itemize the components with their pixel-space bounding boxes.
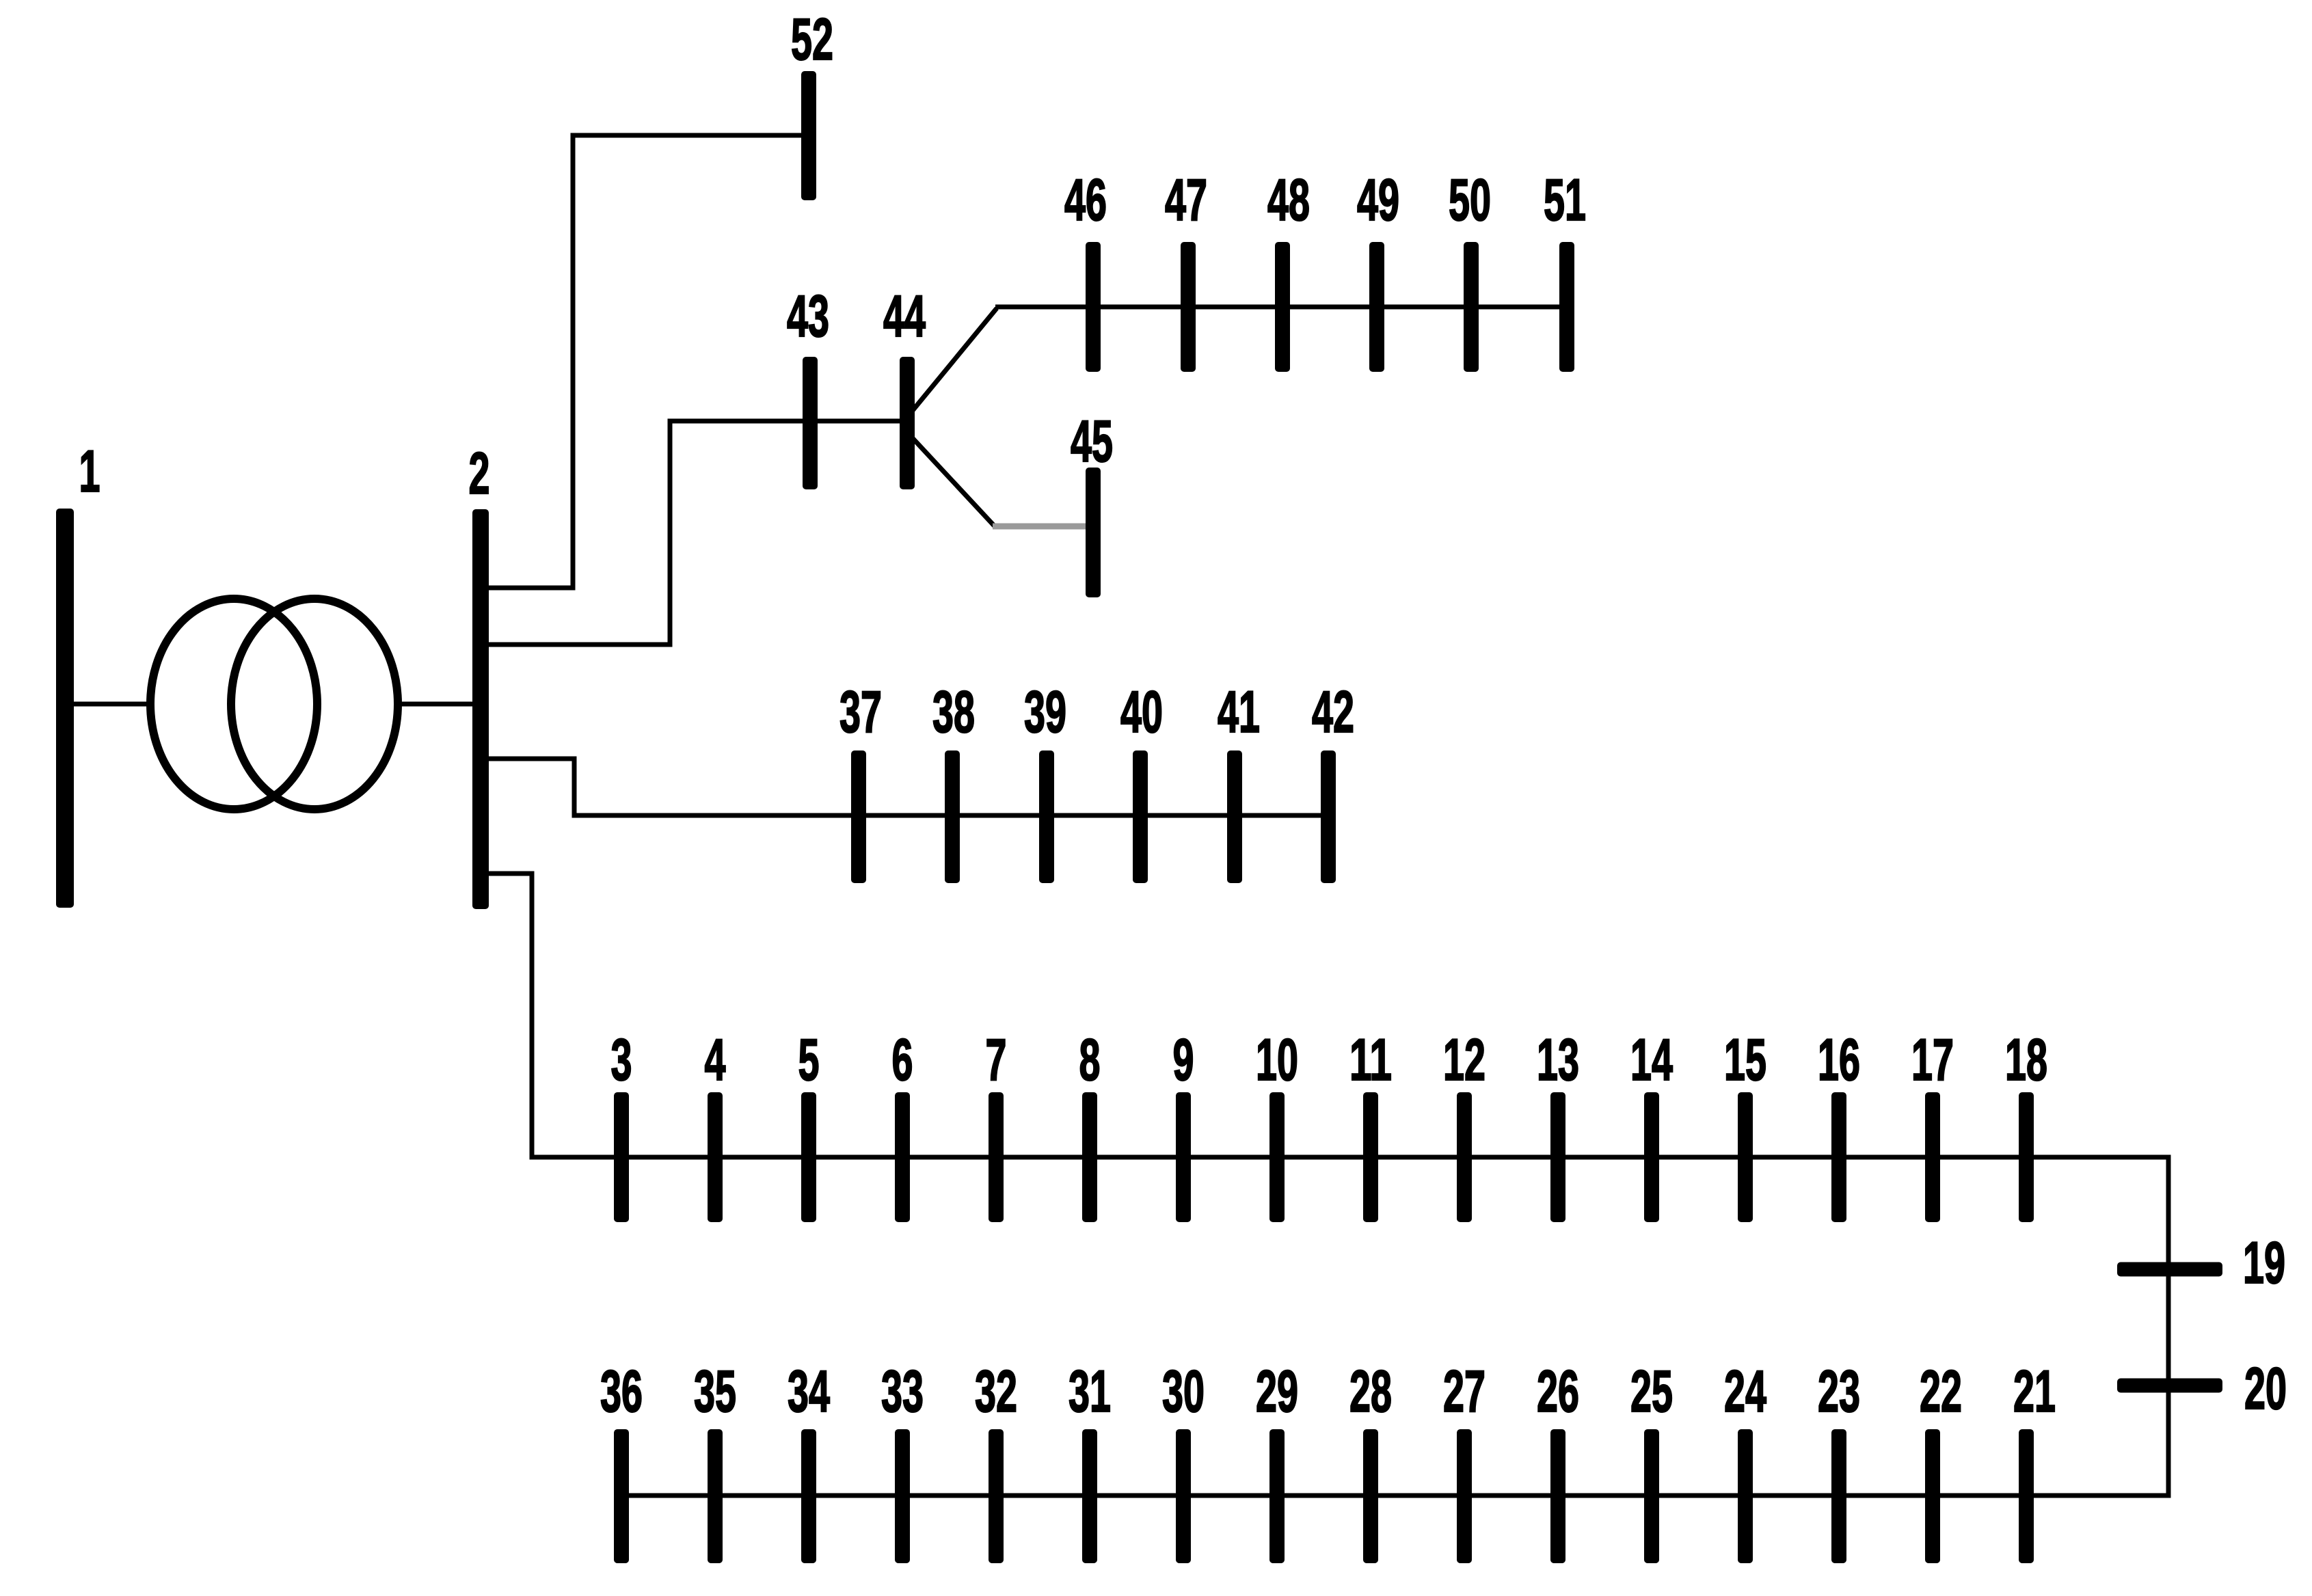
bus 10	[1269, 1092, 1285, 1222]
svg-text:33: 33	[881, 1359, 924, 1424]
wire bus2-bus43 feeder	[487, 421, 909, 645]
bus 21	[2019, 1429, 2034, 1563]
bus 7	[989, 1092, 1004, 1222]
svg-text:8: 8	[1079, 1027, 1101, 1093]
svg-text:37: 37	[839, 679, 882, 745]
bus 43	[803, 357, 818, 489]
bus 12	[1457, 1092, 1472, 1222]
wire bus2-bus52 feeder	[487, 135, 807, 588]
bus 42	[1321, 750, 1336, 883]
svg-text:23: 23	[1818, 1359, 1860, 1424]
svg-text:3: 3	[611, 1027, 632, 1093]
svg-text:1: 1	[79, 439, 100, 504]
bus 41	[1227, 750, 1242, 883]
bus 36	[614, 1429, 629, 1563]
svg-text:20: 20	[2244, 1356, 2287, 1422]
bus 37	[851, 750, 866, 883]
bus 34	[801, 1429, 816, 1563]
svg-text:24: 24	[1724, 1359, 1766, 1424]
svg-text:18: 18	[2005, 1027, 2047, 1093]
svg-text:32: 32	[975, 1359, 1017, 1424]
svg-text:12: 12	[1443, 1027, 1486, 1093]
svg-text:29: 29	[1256, 1359, 1298, 1424]
bus 22	[1925, 1429, 1940, 1563]
bus 35	[708, 1429, 723, 1563]
svg-text:47: 47	[1165, 167, 1207, 233]
svg-text:7: 7	[986, 1027, 1007, 1093]
svg-text:52: 52	[791, 7, 833, 72]
svg-text:22: 22	[1920, 1359, 1962, 1424]
bus 26	[1550, 1429, 1565, 1563]
svg-text:40: 40	[1120, 679, 1163, 745]
svg-text:46: 46	[1064, 167, 1107, 233]
svg-text:42: 42	[1312, 679, 1354, 745]
svg-text:26: 26	[1537, 1359, 1579, 1424]
svg-text:31: 31	[1068, 1359, 1111, 1424]
svg-text:48: 48	[1267, 167, 1310, 233]
wire bus44-bus45 diagonal	[912, 437, 995, 526]
svg-text:16: 16	[1818, 1027, 1860, 1093]
bus 39	[1039, 750, 1054, 883]
svg-text:10: 10	[1256, 1027, 1298, 1093]
bus 23	[1831, 1429, 1846, 1563]
svg-text:49: 49	[1357, 167, 1399, 233]
bus 25	[1644, 1429, 1659, 1563]
svg-text:50: 50	[1449, 167, 1491, 233]
bus 18	[2019, 1092, 2034, 1222]
bus 46	[1086, 242, 1101, 372]
bus 16	[1831, 1092, 1846, 1222]
svg-text:39: 39	[1024, 679, 1066, 745]
svg-text:19: 19	[2243, 1230, 2285, 1296]
bus 17	[1925, 1092, 1940, 1222]
wire bus44-bus46 branch diagonal	[911, 308, 997, 412]
svg-text:34: 34	[788, 1359, 830, 1424]
bus 6	[895, 1092, 910, 1222]
svg-text:6: 6	[892, 1027, 913, 1093]
svg-text:2: 2	[469, 441, 490, 506]
bus 15	[1738, 1092, 1753, 1222]
svg-text:17: 17	[1911, 1027, 1954, 1093]
svg-text:41: 41	[1218, 679, 1260, 745]
svg-text:30: 30	[1162, 1359, 1205, 1424]
svg-text:14: 14	[1630, 1027, 1673, 1093]
bus 20	[2117, 1379, 2222, 1393]
svg-text:35: 35	[694, 1359, 736, 1424]
svg-text:13: 13	[1537, 1027, 1579, 1093]
wire to bus 45 (gray)	[993, 524, 1088, 530]
bus 50	[1464, 242, 1479, 372]
bus 3	[614, 1092, 629, 1222]
svg-text:44: 44	[883, 284, 926, 349]
bus 28	[1363, 1429, 1378, 1563]
bus 32	[989, 1429, 1004, 1563]
transformer T1 primary winding	[150, 599, 317, 809]
wire bus1-transformer	[72, 702, 150, 707]
bus 13	[1550, 1092, 1565, 1222]
bus 14	[1644, 1092, 1659, 1222]
bus 11	[1363, 1092, 1378, 1222]
svg-text:11: 11	[1349, 1027, 1392, 1093]
bus 44	[900, 357, 915, 489]
transformer T1 secondary winding	[231, 599, 398, 809]
bus 1	[56, 509, 74, 908]
bus 51	[1559, 242, 1574, 372]
bus 52	[801, 71, 816, 200]
svg-text:51: 51	[1544, 167, 1586, 233]
bus 40	[1133, 750, 1148, 883]
bus 24	[1738, 1429, 1753, 1563]
svg-text:25: 25	[1630, 1359, 1673, 1424]
bus 30	[1176, 1429, 1191, 1563]
svg-text:15: 15	[1724, 1027, 1766, 1093]
bus 48	[1275, 242, 1290, 372]
svg-text:36: 36	[600, 1359, 643, 1424]
svg-text:28: 28	[1349, 1359, 1392, 1424]
wire bus2 main feeder trunk	[487, 874, 2168, 1496]
bus 8	[1082, 1092, 1097, 1222]
bus 31	[1082, 1429, 1097, 1563]
bus 19	[2117, 1262, 2222, 1277]
wire 46-51 feeder line	[995, 305, 1567, 310]
svg-text:21: 21	[2013, 1359, 2056, 1424]
wire transformer-bus2	[396, 702, 474, 707]
svg-text:27: 27	[1443, 1359, 1486, 1424]
svg-text:45: 45	[1071, 409, 1113, 474]
wire bus2-bus37 feeder	[487, 759, 1326, 815]
bus 29	[1269, 1429, 1285, 1563]
bus 45	[1086, 468, 1101, 597]
bus 27	[1457, 1429, 1472, 1563]
svg-text:38: 38	[932, 679, 975, 745]
svg-text:5: 5	[798, 1027, 820, 1093]
svg-text:4: 4	[705, 1027, 726, 1093]
bus 33	[895, 1429, 910, 1563]
bus 47	[1181, 242, 1196, 372]
bus 5	[801, 1092, 816, 1222]
bus 9	[1176, 1092, 1191, 1222]
svg-text:9: 9	[1173, 1027, 1194, 1093]
bus 38	[945, 750, 960, 883]
svg-text:43: 43	[787, 284, 829, 349]
bus 49	[1369, 242, 1384, 372]
bus 2	[472, 509, 489, 909]
bus 4	[708, 1092, 723, 1222]
